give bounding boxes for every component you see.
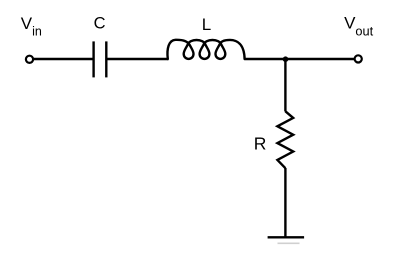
inductor L <box>167 40 244 59</box>
wire L to output <box>245 58 355 60</box>
wire input to C <box>34 58 93 60</box>
svg-text:R: R <box>254 133 267 153</box>
wire R to ground <box>284 168 286 237</box>
svg-text:V: V <box>21 14 33 33</box>
svg-text:in: in <box>32 25 42 39</box>
svg-text:L: L <box>202 15 211 34</box>
svg-text:C: C <box>94 15 106 33</box>
junction node <box>283 56 289 62</box>
output terminal (Vout) <box>355 55 362 62</box>
input terminal (Vin) <box>26 56 33 63</box>
resistor R <box>277 111 293 168</box>
node Vout label <box>344 14 374 39</box>
wire C to L <box>107 58 168 60</box>
svg-text:V: V <box>344 14 356 33</box>
svg-text:out: out <box>355 24 373 39</box>
ground <box>268 237 305 243</box>
node Vin label <box>21 14 42 38</box>
capacitor C <box>94 41 107 77</box>
wire junction down to R <box>284 59 286 112</box>
